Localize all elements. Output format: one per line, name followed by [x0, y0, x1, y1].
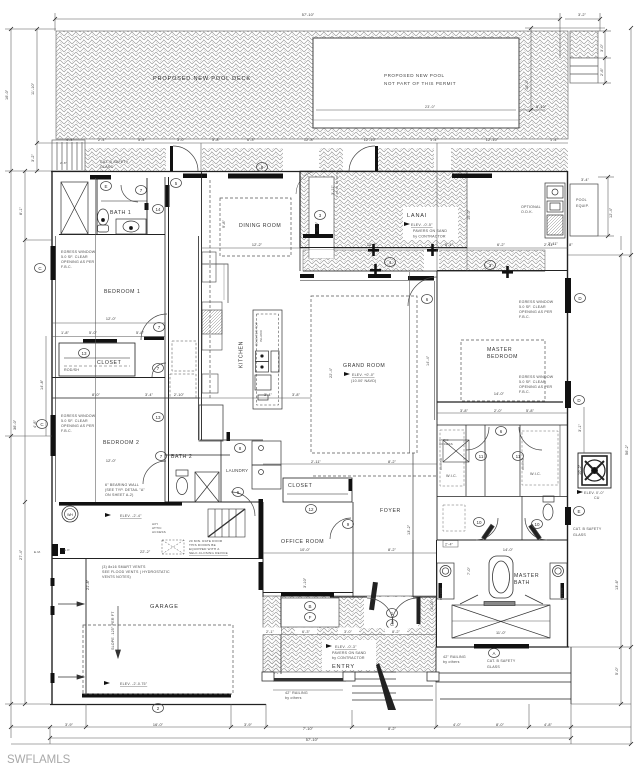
row y398: [52, 397, 201, 399]
svg-text:ROD/SH: ROD/SH: [64, 368, 79, 372]
master bath tub: [489, 556, 513, 598]
svg-text:3'-1": 3'-1": [578, 423, 582, 432]
svg-text:3'-0": 3'-0": [600, 43, 604, 52]
svg-text:by CONTRACTOR: by CONTRACTOR: [332, 656, 365, 660]
svg-text:ACCESS: ACCESS: [439, 442, 453, 446]
svg-text:GRAND ROOM: GRAND ROOM: [343, 363, 385, 369]
svg-text:5'-8": 5'-8": [212, 138, 221, 142]
svg-text:G: G: [390, 622, 394, 627]
svg-text:7'-0": 7'-0": [467, 566, 471, 575]
misc dim texts: [61, 178, 590, 635]
svg-text:GLASS: GLASS: [573, 533, 586, 537]
bottom exterior wall left: [50, 704, 266, 706]
sliding door headers on top wall: [90, 146, 492, 441]
svg-text:5'-8": 5'-8": [136, 331, 145, 335]
svg-text:5.0 SF. CLEAR: 5.0 SF. CLEAR: [61, 419, 88, 423]
office west wall dark bar: [259, 499, 264, 559]
svg-text:SELF-CLOSING DEVICE: SELF-CLOSING DEVICE: [189, 551, 228, 555]
bottom rows: [11, 726, 631, 728]
svg-text:OPTIONAL: OPTIONAL: [521, 205, 541, 209]
entry north wall dark bar: [281, 592, 334, 597]
svg-text:OPENING AS PER: OPENING AS PER: [519, 310, 553, 314]
svg-text:11: 11: [479, 454, 484, 459]
svg-text:23'-0": 23'-0": [425, 105, 436, 109]
svg-text:PROPOSED NEW POOL DECK: PROPOSED NEW POOL DECK: [153, 76, 251, 82]
top-right pool steps: [570, 31, 598, 83]
svg-text:10: 10: [534, 522, 540, 527]
lanai corner door: [349, 146, 375, 172]
svg-text:12'-2": 12'-2": [252, 243, 263, 247]
svg-text:3'-0": 3'-0": [344, 630, 353, 634]
svg-text:PROPOSED NEW POOL: PROPOSED NEW POOL: [384, 73, 445, 78]
entry steps with dark stringer: [352, 672, 433, 700]
svg-text:MIRROR: MIRROR: [560, 587, 564, 600]
svg-text:OPENING AS PER: OPENING AS PER: [519, 385, 553, 389]
svg-text:ON SHEET A-2): ON SHEET A-2): [105, 493, 134, 497]
lanai paver hatch: [300, 171, 467, 258]
svg-text:5'-8": 5'-8": [526, 409, 535, 413]
svg-text:2'-11": 2'-11": [311, 460, 322, 464]
top overall dim: [55, 18, 560, 20]
svg-text:12'-0": 12'-0": [106, 459, 117, 463]
dim text: top + bottom: [65, 13, 587, 742]
bath2 toilet: [176, 470, 188, 495]
svg-text:MASTER: MASTER: [487, 347, 512, 353]
svg-text:22'-2": 22'-2": [140, 550, 151, 554]
svg-text:(10.00' NAVD): (10.00' NAVD): [351, 379, 376, 383]
svg-text:10'-0": 10'-0": [300, 548, 311, 552]
lanai bottom dim verticals: [436, 143, 438, 271]
bedroom1 closet: [59, 343, 135, 376]
svg-text:EGRESS WINDOW: EGRESS WINDOW: [61, 414, 96, 418]
svg-text:F.B.C.: F.B.C.: [519, 390, 530, 394]
svg-text:PAVERS ON SAND: PAVERS ON SAND: [332, 651, 366, 655]
lanai south wall: [300, 247, 467, 249]
svg-text:LANAI: LANAI: [407, 213, 427, 219]
svg-text:2'-1": 2'-1": [266, 630, 275, 634]
svg-text:14: 14: [155, 207, 161, 212]
master hall doors: [466, 427, 489, 450]
garage door header: [82, 694, 231, 698]
svg-text:14'-0": 14'-0": [503, 548, 514, 552]
bath2 shower: [195, 472, 219, 502]
svg-text:42" RAILING: 42" RAILING: [443, 655, 466, 659]
garage right window bar: [259, 562, 264, 590]
grand room north slider: [303, 270, 545, 272]
svg-text:6" BEARING WALL: 6" BEARING WALL: [105, 483, 139, 487]
svg-text:CAT. B SAFETY: CAT. B SAFETY: [573, 527, 602, 531]
svg-text:CU: CU: [594, 496, 600, 500]
svg-text:3'-4": 3'-4": [145, 393, 154, 397]
office walls: [262, 502, 264, 597]
svg-text:BEDROOM 2: BEDROOM 2: [103, 440, 140, 446]
svg-text:KITCHEN: KITCHEN: [239, 341, 245, 368]
entry walk paver hatch: [263, 596, 436, 674]
grand room tray: [311, 296, 417, 453]
svg-text:CAT. B SAFETY: CAT. B SAFETY: [487, 659, 516, 663]
svg-text:B: B: [308, 604, 311, 609]
svg-text:3'-8": 3'-8": [460, 409, 469, 413]
covered patio hatch strip below lanai: [303, 250, 545, 271]
entry railing: [273, 678, 346, 682]
svg-text:ELEV. -2'-0.75": ELEV. -2'-0.75": [120, 682, 148, 686]
svg-text:1'-8": 1'-8": [61, 331, 70, 335]
master bedroom walls: [436, 271, 438, 420]
svg-text:ELEV. +0'-0": ELEV. +0'-0": [352, 373, 375, 377]
grand to patio door: [408, 277, 437, 306]
svg-text:42" RAILING: 42" RAILING: [285, 691, 308, 695]
svg-text:1'-4": 1'-4": [550, 138, 559, 142]
svg-text:13: 13: [81, 351, 87, 356]
bedroom corridor east wall: [164, 177, 166, 502]
svg-text:13'-6": 13'-6": [615, 579, 619, 590]
svg-text:BEDROOM 1: BEDROOM 1: [104, 289, 141, 295]
svg-text:CLOSET: CLOSET: [97, 360, 122, 366]
svg-text:EGRESS WINDOW: EGRESS WINDOW: [519, 375, 554, 379]
bath1 vanity: [116, 219, 146, 234]
svg-text:56'-2": 56'-2": [625, 444, 629, 455]
bedroom1 door: [141, 314, 167, 340]
svg-text:POOL: POOL: [576, 198, 587, 202]
entry double doors: [367, 598, 393, 624]
svg-text:ELEV. 0'-0": ELEV. 0'-0": [584, 491, 605, 495]
svg-text:15'-0": 15'-0": [467, 209, 471, 220]
svg-text:LAUNDRY: LAUNDRY: [226, 468, 248, 473]
attic stair by garage: [208, 509, 245, 537]
master suite hall walls: [436, 420, 438, 540]
svg-text:12: 12: [308, 507, 314, 512]
svg-text:FOYER: FOYER: [380, 508, 401, 514]
svg-text:GARAGE: GARAGE: [150, 604, 179, 610]
svg-text:11'-10": 11'-10": [31, 82, 35, 95]
svg-text:by others: by others: [443, 660, 460, 664]
svg-text:3'-11": 3'-11": [331, 184, 335, 195]
svg-text:OFFICE ROOM: OFFICE ROOM: [281, 539, 324, 545]
dining slider arc: [296, 171, 319, 194]
svg-text:11'-0": 11'-0": [496, 631, 507, 635]
WH water heater: [62, 506, 78, 522]
row y247: [201, 247, 300, 249]
svg-text:EQUIP.: EQUIP.: [576, 204, 589, 208]
bearing wall black bar: [59, 502, 182, 506]
left vertical dims: [10, 29, 12, 738]
svg-text:10: 10: [476, 520, 482, 525]
left yard arrows: [58, 602, 84, 679]
svg-text:MIRROR: MIRROR: [439, 587, 443, 600]
svg-text:8'-2": 8'-2": [388, 727, 397, 731]
svg-text:E: E: [577, 509, 580, 514]
EP EM electric panel marks: [52, 544, 65, 556]
svg-text:ISLAND: ISLAND: [259, 329, 263, 342]
svg-text:5'-4": 5'-4": [138, 138, 147, 142]
garage slope arrow: [116, 606, 121, 658]
svg-text:SWFLAMLS: SWFLAMLS: [7, 754, 71, 766]
svg-text:12'-10": 12'-10": [364, 138, 377, 142]
svg-text:WH: WH: [67, 513, 73, 517]
svg-text:8'-2": 8'-2": [388, 460, 397, 464]
bath1 walls: [96, 178, 98, 234]
svg-text:3'-9": 3'-9": [244, 723, 253, 727]
svg-text:6'-3": 6'-3": [302, 630, 311, 634]
dim text row y246: [252, 243, 574, 247]
dim text row y142: [66, 138, 559, 142]
svg-text:57'-10": 57'-10": [306, 738, 319, 742]
svg-text:3'-10": 3'-10": [303, 577, 307, 588]
bath1 shower: [61, 182, 88, 234]
svg-text:12'-4": 12'-4": [609, 207, 613, 218]
svg-text:6'-2": 6'-2": [497, 243, 506, 247]
svg-text:22'-4": 22'-4": [329, 367, 333, 378]
svg-text:14'-0": 14'-0": [494, 392, 505, 396]
svg-text:2'-11": 2'-11": [548, 242, 559, 246]
svg-text:E.M.: E.M.: [34, 550, 41, 554]
svg-text:A: A: [492, 651, 495, 656]
right wall window bars: [474, 278, 571, 649]
pool deck corner door: [173, 146, 198, 171]
svg-text:F.B.C.: F.B.C.: [519, 315, 530, 319]
laundry door: [231, 492, 255, 516]
svg-text:F: F: [309, 615, 312, 620]
svg-text:E: E: [104, 184, 107, 189]
svg-text:12'-2": 12'-2": [367, 243, 378, 247]
svg-text:8'-2": 8'-2": [392, 630, 401, 634]
grand room west boundary: [299, 248, 301, 271]
svg-text:36'-0": 36'-0": [13, 419, 17, 430]
bedroom2 north wall: [52, 397, 200, 399]
mirror bars master bath: [439, 583, 443, 598]
svg-text:4'-0": 4'-0": [453, 723, 462, 727]
svg-text:DINING ROOM: DINING ROOM: [239, 223, 281, 229]
bath1 door: [121, 185, 138, 202]
svg-text:OPENING AS PER: OPENING AS PER: [61, 424, 95, 428]
svg-text:COUNTER TOP: COUNTER TOP: [255, 322, 259, 346]
svg-text:CAT. B SAFETY: CAT. B SAFETY: [100, 160, 129, 164]
proposed new pool (white): [313, 38, 519, 128]
svg-text:by others: by others: [285, 696, 302, 700]
WIC rods dashed: [440, 430, 558, 531]
dining room tray: [220, 198, 291, 256]
bath1 toilet: [98, 209, 109, 232]
svg-text:2'-8": 2'-8": [60, 161, 67, 165]
svg-text:16'-0": 16'-0": [5, 89, 9, 100]
svg-text:(3) 8x16 SMART VENTS: (3) 8x16 SMART VENTS: [102, 565, 146, 569]
svg-text:16'-8": 16'-8": [315, 221, 319, 232]
master bath bottom wall: [436, 646, 569, 648]
interior horiz dim row y143: [56, 142, 568, 144]
svg-text:ELEV. -2'-4": ELEV. -2'-4": [120, 514, 142, 518]
svg-text:3'-9": 3'-9": [65, 723, 74, 727]
svg-text:2'-6": 2'-6": [600, 67, 604, 76]
svg-text:3'-8": 3'-8": [292, 393, 301, 397]
svg-text:11: 11: [516, 454, 521, 459]
svg-text:F.B.C.: F.B.C.: [61, 265, 72, 269]
right exterior wall: [567, 171, 569, 647]
svg-text:O.D.K.: O.D.K.: [521, 210, 533, 214]
svg-text:5.0 SF. CLEAR: 5.0 SF. CLEAR: [519, 305, 546, 309]
row y553: [263, 552, 436, 554]
svg-text:5'-10": 5'-10": [536, 105, 547, 109]
svg-text:VENTS NOTES): VENTS NOTES): [102, 575, 131, 579]
svg-text:3'-0": 3'-0": [177, 138, 186, 142]
svg-text:NOT PART OF THIS PERMIT: NOT PART OF THIS PERMIT: [384, 81, 456, 86]
svg-text:EGRESS WINDOW: EGRESS WINDOW: [61, 250, 96, 254]
svg-text:SLOPE .125" PER FT: SLOPE .125" PER FT: [111, 611, 115, 650]
AC condenser unit: [578, 453, 611, 488]
svg-text:8'-1": 8'-1": [19, 206, 23, 215]
svg-text:3'-4": 3'-4": [581, 178, 590, 182]
left wall window bars: [51, 246, 165, 683]
svg-text:8'-0": 8'-0": [92, 393, 101, 397]
svg-text:W.I.C.: W.I.C.: [446, 474, 457, 478]
entry dim row: [259, 628, 436, 635]
svg-text:5.0 SF. CLEAR: 5.0 SF. CLEAR: [519, 380, 546, 384]
pool right dim: [530, 28, 532, 110]
svg-text:9'-8": 9'-8": [222, 219, 226, 228]
left exterior wall: [51, 171, 53, 704]
svg-text:14'-8": 14'-8": [40, 379, 44, 390]
rotated dim texts left: [5, 82, 90, 590]
svg-text:BATH 1: BATH 1: [110, 210, 131, 216]
svg-text:5.0 SF. CLEAR: 5.0 SF. CLEAR: [61, 255, 88, 259]
master bath entry doors: [476, 518, 498, 540]
svg-text:ELEV. -0'-5": ELEV. -0'-5": [411, 223, 433, 227]
svg-text:PAVERS ON SAND: PAVERS ON SAND: [413, 229, 447, 233]
svg-text:ACCESS: ACCESS: [152, 530, 166, 534]
svg-text:6'-3": 6'-3": [247, 138, 256, 142]
svg-text:F.B.C.: F.B.C.: [61, 429, 72, 433]
office door: [330, 518, 351, 539]
svg-text:EGRESS WINDOW: EGRESS WINDOW: [519, 300, 554, 304]
svg-text:14'-4": 14'-4": [426, 355, 430, 366]
svg-text:12'-10": 12'-10": [486, 138, 499, 142]
pool equipment box: [570, 184, 598, 236]
kitchen west wall: [198, 236, 200, 440]
svg-text:7'-10": 7'-10": [303, 727, 314, 731]
svg-text:3'-10": 3'-10": [430, 599, 434, 610]
svg-text:8'-2": 8'-2": [388, 548, 397, 552]
svg-text:13'-2": 13'-2": [407, 524, 411, 535]
svg-text:8'-0": 8'-0": [496, 723, 505, 727]
right vertical dims: [607, 177, 609, 236]
svg-text:5'-1": 5'-1": [445, 243, 454, 247]
svg-text:12'-8": 12'-8": [304, 138, 315, 142]
svg-text:GLASS: GLASS: [100, 165, 113, 169]
svg-text:4'-8": 4'-8": [33, 419, 37, 428]
svg-text:CLOSET: CLOSET: [288, 483, 313, 489]
pool deck hatch band: [52, 31, 568, 171]
rotated dim texts right: [222, 43, 629, 675]
svg-text:by CONTRACTOR: by CONTRACTOR: [413, 235, 446, 239]
right porch edge: [570, 647, 572, 704]
row y464: [263, 463, 437, 465]
svg-text:W.I.C.: W.I.C.: [530, 472, 541, 476]
svg-text:MASTER: MASTER: [514, 573, 539, 579]
master shower: [452, 595, 550, 638]
washer dryer: [252, 441, 281, 489]
svg-text:4'-4": 4'-4": [66, 138, 75, 142]
foyer east wall: [412, 540, 414, 597]
svg-text:27'-4": 27'-4": [19, 549, 23, 560]
svg-text:2'-0": 2'-0": [494, 409, 503, 413]
kitchen island: [253, 310, 282, 409]
svg-text:5'-0": 5'-0": [615, 666, 619, 675]
entry door leaf dark: [369, 582, 378, 610]
svg-text:3'-4": 3'-4": [264, 393, 273, 397]
interior walls: [52, 171, 263, 502]
svg-text:ENTRY: ENTRY: [332, 664, 355, 670]
svg-text:OPENING AS PER: OPENING AS PER: [61, 260, 95, 264]
svg-text:2'-10": 2'-10": [174, 393, 185, 397]
svg-text:13: 13: [155, 415, 161, 420]
kitchen wall cabinets: [170, 252, 228, 441]
garage slab: [83, 625, 233, 694]
svg-text:2'-4": 2'-4": [445, 543, 454, 547]
svg-text:BATH: BATH: [514, 580, 530, 586]
master bedroom tray: [461, 340, 545, 401]
svg-text:SEE FLOOD VENTS ( HYDROSTATIC: SEE FLOOD VENTS ( HYDROSTATIC: [102, 570, 170, 574]
svg-text:16'-0": 16'-0": [153, 723, 164, 727]
svg-text:3'-2": 3'-2": [578, 13, 587, 17]
svg-text:ELEV. -0'-3": ELEV. -0'-3": [335, 645, 357, 649]
svg-text:10'-4": 10'-4": [525, 79, 529, 90]
house top wall: [51, 171, 568, 173]
powder toilet: [543, 496, 554, 520]
svg-text:BATH 2: BATH 2: [171, 454, 192, 460]
svg-text:BEDROOM: BEDROOM: [487, 354, 518, 360]
lanai fireplace tees: [303, 224, 513, 278]
svg-text:E.P.: E.P.: [64, 548, 70, 552]
stair treads top-left pool deck steps: [57, 142, 82, 170]
foyer closet: [283, 478, 352, 502]
svg-text:ROD/SH: ROD/SH: [439, 458, 443, 470]
svg-text:(SEE TYP. DETAIL "A": (SEE TYP. DETAIL "A": [105, 488, 145, 492]
master bath vanities: [437, 563, 567, 599]
svg-text:5'-0": 5'-0": [89, 331, 98, 335]
svg-text:1'-4": 1'-4": [430, 138, 439, 142]
optional ODK cabinet column: [545, 183, 565, 238]
kitchen corridor centerline: [209, 180, 211, 400]
svg-text:12'-0": 12'-0": [106, 317, 117, 321]
right of steps vertical dim: [604, 31, 606, 83]
svg-text:GLASS: GLASS: [487, 665, 500, 669]
svg-text:3'-2": 3'-2": [31, 153, 35, 162]
svg-text:57'-10": 57'-10": [302, 13, 315, 17]
bedroom2/bath2 door: [143, 461, 166, 484]
svg-text:21'-8": 21'-8": [86, 579, 90, 590]
bath2 / laundry walls: [165, 454, 230, 456]
attic access X box master hall: [443, 440, 469, 462]
svg-text:10'-2": 10'-2": [578, 464, 582, 475]
svg-text:4'-8": 4'-8": [544, 723, 553, 727]
garage walls: [85, 558, 87, 697]
svg-text:2'-4": 2'-4": [98, 138, 107, 142]
svg-text:8": 8": [569, 243, 573, 247]
